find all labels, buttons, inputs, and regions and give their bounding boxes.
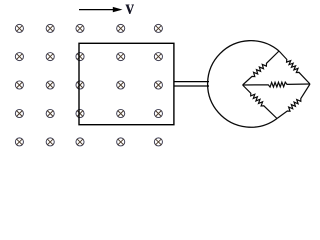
svg-text:v: v	[126, 0, 135, 19]
